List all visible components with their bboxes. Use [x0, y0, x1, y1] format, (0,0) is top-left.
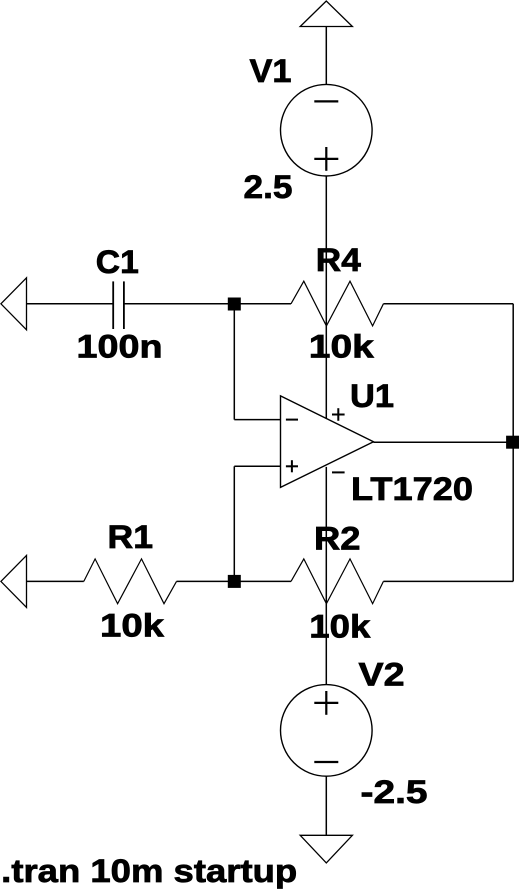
wire node A down to inverting input	[233, 304, 235, 420]
op-amp negative supply minus mark	[332, 471, 345, 473]
op-amp non-inverting input plus mark	[286, 460, 298, 472]
wire op-amp V- down to V2 (crosses R2)	[325, 467, 327, 685]
svg-text:10k: 10k	[309, 609, 370, 645]
svg-text:U1: U1	[350, 378, 394, 414]
wire R2 to right rail	[383, 580, 513, 582]
wire left port to C1	[27, 303, 114, 305]
V1 minus mark	[314, 100, 338, 102]
port symbol left top (left arrow)	[1, 278, 27, 330]
port symbol top (up arrow)	[300, 1, 352, 27]
svg-text:10k: 10k	[100, 608, 164, 644]
wire left port to R1	[27, 580, 84, 582]
wire C1 to node A	[124, 303, 291, 305]
wire R1 to node B	[177, 580, 292, 582]
svg-text:C1: C1	[96, 244, 139, 280]
V2 plus mark	[314, 691, 338, 715]
svg-text:100n: 100n	[77, 329, 163, 365]
wire R4 to right rail	[383, 303, 513, 305]
node A junction	[228, 298, 241, 311]
wire V1 to op-amp V+ (crosses R4)	[325, 176, 327, 419]
svg-text:.tran 10m startup: .tran 10m startup	[1, 853, 297, 889]
node B junction	[228, 575, 241, 588]
voltage source V1	[281, 84, 373, 176]
svg-text:R2: R2	[314, 521, 361, 557]
capacitor C1	[113, 281, 124, 329]
wire op-amp output to node C	[374, 441, 514, 443]
port symbol bottom (down arrow)	[300, 835, 352, 863]
wire right rail vertical	[512, 304, 514, 582]
resistor R2	[291, 559, 383, 604]
node C junction	[506, 436, 519, 449]
V2 minus mark	[314, 761, 338, 763]
svg-text:2.5: 2.5	[244, 169, 293, 205]
wire to non-inverting input	[234, 465, 280, 467]
wire V2 to bottom port	[325, 776, 327, 835]
op-amp inverting input minus mark	[286, 419, 298, 421]
svg-text:R4: R4	[316, 242, 361, 278]
op-amp positive supply plus mark	[332, 408, 345, 421]
wire top port to V1	[325, 27, 327, 86]
svg-text:V1: V1	[250, 53, 292, 89]
svg-text:V2: V2	[359, 657, 405, 693]
resistor R1	[84, 559, 177, 604]
voltage source V2	[281, 685, 373, 777]
resistor R4	[291, 281, 383, 326]
svg-text:R1: R1	[108, 519, 154, 555]
svg-text:-2.5: -2.5	[361, 774, 428, 810]
wire to inverting input	[234, 419, 280, 421]
V1 plus mark	[314, 147, 338, 171]
svg-text:10k: 10k	[309, 329, 374, 365]
port symbol left bottom (left arrow)	[1, 555, 27, 607]
wire node B up to non-inverting input	[233, 466, 235, 581]
svg-text:LT1720: LT1720	[351, 471, 473, 507]
op-amp U1 triangle	[281, 396, 374, 488]
